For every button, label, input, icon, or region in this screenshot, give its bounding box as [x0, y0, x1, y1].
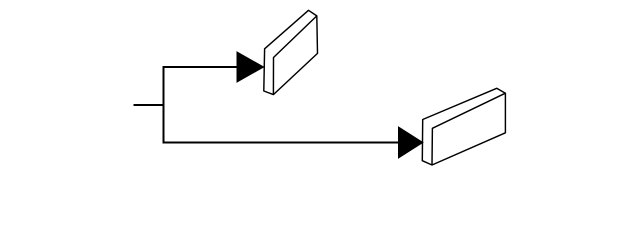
- arrowhead into box 2: [399, 127, 423, 158]
- arrowhead into box 1: [237, 52, 264, 82]
- wire: input stub: [134, 104, 165, 106]
- 3D slab box 2 (large, shallow tilt): [422, 88, 505, 165]
- wire: top branch: [163, 66, 238, 68]
- wire: vertical junction: [163, 66, 165, 144]
- 3D slab box 1 (small, steeply tilted): [264, 10, 318, 94]
- wire: bottom branch: [163, 142, 400, 144]
